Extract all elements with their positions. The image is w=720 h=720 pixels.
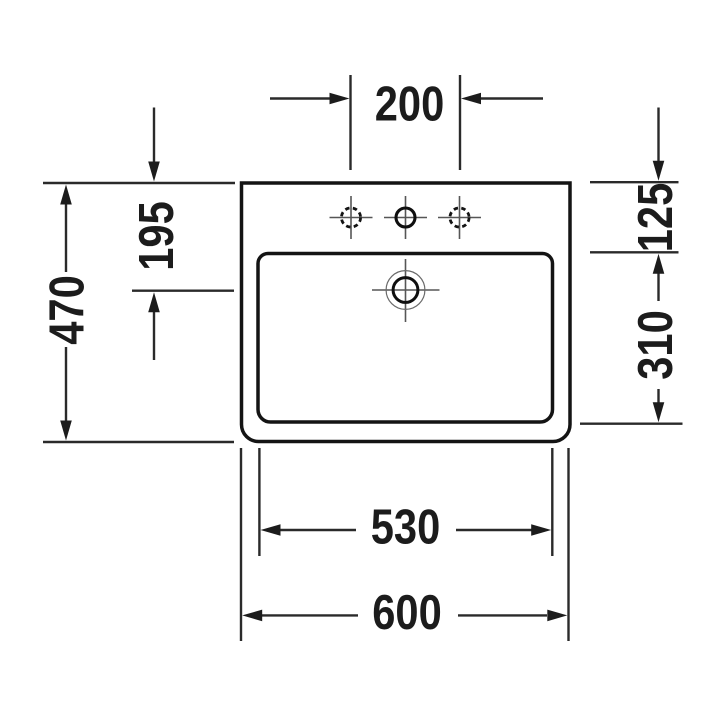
svg-text:310: 310 (628, 310, 683, 379)
svg-text:600: 600 (372, 585, 441, 640)
svg-text:125: 125 (628, 183, 683, 252)
svg-text:470: 470 (39, 275, 94, 344)
svg-text:530: 530 (371, 499, 440, 554)
svg-text:195: 195 (129, 201, 184, 270)
svg-text:200: 200 (375, 76, 444, 131)
